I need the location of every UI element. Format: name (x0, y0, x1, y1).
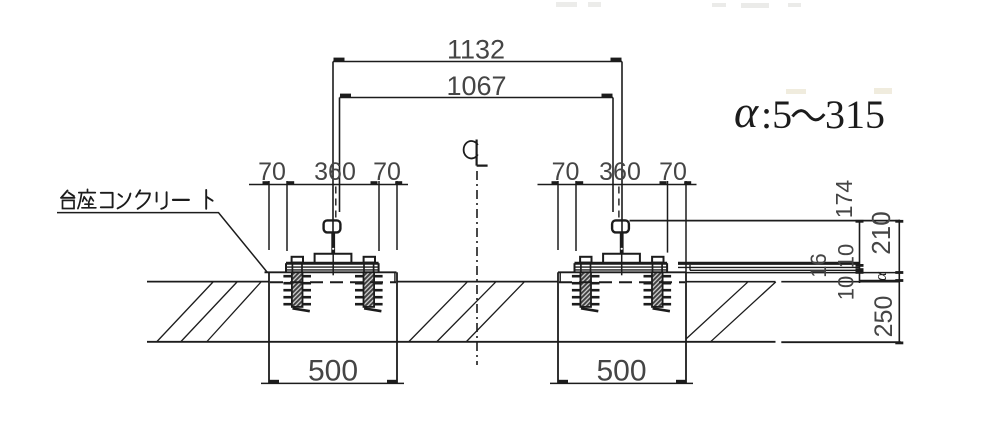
svg-text:16: 16 (806, 253, 831, 277)
rail right: base (603, 254, 640, 263)
svg-text:360: 360 (599, 158, 641, 186)
svg-text:10: 10 (834, 276, 859, 300)
pedestal left: top (265, 271, 397, 273)
svg-text:α: α (734, 86, 759, 137)
faint top scan remnants (556, 2, 801, 8)
pedestal left: sides (269, 272, 397, 383)
ground bottom line (147, 341, 901, 343)
dashed surface line through left pedestal (270, 281, 396, 283)
svg-text:1067: 1067 (446, 71, 506, 101)
RIGHT assembly: dim 70/360/70 line (538, 181, 697, 184)
rail left: web (331, 232, 335, 254)
svg-text:315: 315 (825, 92, 885, 137)
alpha layer boundary connector (860, 280, 900, 282)
LEFT assembly: dim 70/360/70 line (249, 181, 408, 184)
dim texts 70 360 70 right (552, 158, 687, 186)
rail left: base (315, 254, 352, 263)
centerline CL symbol (464, 140, 488, 166)
rail right: head (612, 220, 629, 232)
dim 500 right (550, 380, 693, 384)
pavement thick band (678, 262, 860, 265)
svg-text:1132: 1132 (447, 35, 505, 65)
svg-text:210: 210 (866, 211, 896, 254)
dimension 1132 extension lines (333, 62, 622, 233)
pavement surface line right (686, 281, 899, 283)
rail centerline dash above right head (618, 187, 620, 220)
bolt shafts through plate (292, 263, 662, 273)
ground top line left segment (147, 281, 269, 283)
dimension 1067 extension lines (340, 98, 614, 213)
svg-text::5: :5 (761, 92, 792, 137)
ground top line middle segment (397, 281, 558, 283)
svg-text:360: 360 (314, 158, 356, 186)
pavement top surface line (rail top level) (630, 220, 900, 222)
note tilde (793, 111, 825, 120)
pedestal right: top (558, 271, 686, 273)
dashed surface line through right pedestal (559, 281, 685, 283)
dim texts 70 360 70 left (258, 158, 401, 186)
note faint smudges (786, 88, 892, 94)
svg-text:10: 10 (834, 244, 859, 268)
rail right: center line (621, 254, 623, 275)
pedestal left: corner step (394, 272, 396, 281)
note alpha 5-315 (734, 86, 885, 137)
centerline dash-dot (476, 171, 478, 365)
extension lines left assembly (269, 181, 397, 251)
pavement layer line 3 (686, 272, 899, 274)
hatch right region (686, 282, 776, 342)
svg-text:500: 500 (596, 355, 646, 388)
pedestal right: corner step (559, 272, 561, 281)
hatch middle region (409, 282, 524, 341)
anchor bolt right-right (644, 272, 672, 311)
svg-text:70: 70 (552, 158, 580, 186)
anchor bolt right-left (572, 272, 600, 311)
label daiza concrete (drawn glyphs) (61, 189, 213, 209)
dimension 1132 line (333, 58, 622, 62)
rail centerline dash above left head (335, 187, 337, 220)
svg-text:500: 500 (308, 355, 358, 388)
dimension 1067 line (340, 94, 614, 98)
pavement layer step connector (689, 265, 691, 270)
svg-text:250: 250 (870, 296, 898, 338)
svg-text:174: 174 (831, 180, 857, 219)
bolt heads right assembly (580, 257, 663, 263)
extension lines right assembly (558, 181, 686, 272)
svg-text:70: 70 (258, 158, 286, 186)
hatch left region (157, 282, 261, 342)
rail left: head (324, 220, 341, 232)
anchor bolt left-right (355, 272, 383, 311)
right outer dim line (895, 220, 903, 345)
pavement layer line 1 (678, 266, 860, 268)
pedestal right: sides (558, 272, 686, 383)
bolt heads left assembly (292, 257, 375, 263)
right inner dim line (856, 220, 864, 283)
label leader line (57, 213, 267, 272)
rail left: center line (332, 254, 334, 275)
anchor bolt left-left (283, 272, 311, 311)
tie plate right (575, 263, 668, 272)
dim 500 left (261, 380, 404, 384)
rail right: web (620, 232, 624, 254)
pavement layer line 2 (690, 269, 860, 271)
svg-text:70: 70 (659, 158, 687, 186)
svg-text:α: α (871, 271, 890, 281)
tie plate left (286, 263, 379, 272)
